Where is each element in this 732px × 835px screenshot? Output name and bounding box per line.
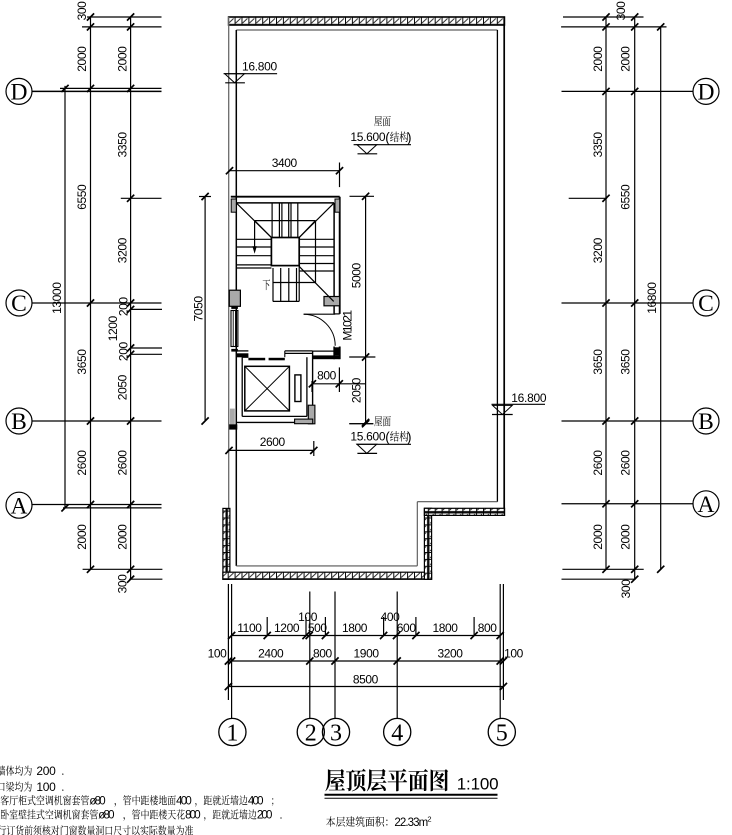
left extra row below A [63,507,162,509]
svg-text:800: 800 [478,621,498,635]
note line 5 [0,825,193,835]
axis bubble C left [6,290,32,317]
right dim chain line x=606 [605,17,607,569]
axis bubble 1 [219,718,246,746]
svg-text:500: 500 [308,621,328,635]
svg-text:3650: 3650 [75,349,89,375]
svg-text:800: 800 [313,646,333,660]
bottom dim ticks [225,632,507,690]
left ext line y=348 [131,347,162,349]
svg-text:13000: 13000 [50,282,64,314]
stair text 下 [263,279,270,290]
top parapet hatch band [228,17,504,25]
axis bubble A right [693,491,719,518]
svg-text:5: 5 [496,720,508,746]
axis B line right [562,420,694,422]
svg-text:1100: 1100 [237,621,262,635]
level 16.800 right [492,391,547,415]
axis 4 extension line [396,592,398,719]
svg-text:22.33m: 22.33m [394,817,427,829]
svg-text:6550: 6550 [75,184,89,210]
axis bubble 3 [322,718,349,746]
svg-text:800: 800 [185,810,200,822]
stair bottom edge [273,300,299,302]
left ext line y=309.4 [131,308,162,310]
svg-text:2600: 2600 [591,450,605,476]
lower roof inner corner lines [236,502,497,566]
axis D line left [32,90,162,92]
axis bubble D left [6,78,32,105]
axis bubble C right [693,290,719,317]
svg-text:ø80: ø80 [98,810,114,822]
svg-text:400: 400 [248,795,263,807]
right wall outer line [503,17,505,509]
wall below shaft [229,424,237,429]
core top wall [231,197,340,203]
svg-text:800: 800 [317,368,337,382]
axis bubble 2 [297,718,324,746]
svg-text:D: D [698,80,715,106]
svg-text:100: 100 [504,646,524,660]
svg-text:15.600: 15.600 [350,130,386,144]
dim 2600 [225,435,317,456]
lower left parapet hatch [223,508,230,579]
svg-text:4: 4 [391,720,403,746]
svg-text:2000: 2000 [75,524,89,550]
left ext line y=26.9 [82,26,162,28]
svg-text:3200: 3200 [437,646,463,660]
svg-text:B: B [11,409,27,435]
right ext line y=569.3 [562,568,643,570]
svg-text:3: 3 [330,720,342,746]
svg-text:2000: 2000 [115,46,129,72]
svg-text:C: C [698,291,714,317]
door M1021 [304,314,340,346]
axis bubble D right [693,78,719,105]
svg-text:2400: 2400 [258,646,284,660]
svg-text:2000: 2000 [619,524,633,550]
left dim chain line x=130.6 [130,17,132,579]
axis D line right [562,90,694,92]
svg-text:200: 200 [117,297,131,317]
bottom dim row2 line [228,660,503,662]
left window jamb lower [231,349,238,352]
svg-text:5000: 5000 [349,262,363,288]
level 15.600 upper [350,116,411,154]
svg-text:ø80: ø80 [89,795,105,807]
left dim chain line x=65 (13000 D-A) [64,86,66,508]
svg-text:3400: 3400 [272,156,298,170]
right ext line y=579.2 [562,578,636,580]
svg-text:400: 400 [176,795,191,807]
left wall outer line [228,17,230,509]
left ext line y=354.3 [131,353,162,355]
axis C line left [32,302,162,304]
roof inner line top [236,29,497,31]
column mid-left [229,290,240,306]
axis bubble 4 [384,718,411,746]
elevator car [245,366,290,411]
stair break lines upper [236,203,334,283]
axis 2 extension line [309,592,311,719]
svg-text:2000: 2000 [75,46,89,72]
svg-text:8500: 8500 [353,672,379,686]
gray block shaft bottom [295,419,313,424]
svg-text:100: 100 [36,780,56,794]
left dim ticks [61,13,134,582]
svg-text:3200: 3200 [115,237,129,263]
wall under door M1021 [313,347,340,359]
row1 risers [267,617,474,636]
svg-text:300: 300 [115,574,129,594]
wall seg below col mid-left [231,306,238,309]
axis A line right [562,503,694,505]
svg-text:2000: 2000 [619,46,633,72]
right flight treads [299,239,334,271]
svg-text:2: 2 [427,814,431,823]
stair well square [271,238,299,266]
svg-text:(: ( [385,130,390,145]
column top-left [231,199,236,212]
svg-text:200: 200 [257,810,272,822]
svg-text:16.800: 16.800 [511,391,547,405]
svg-text:2000: 2000 [591,524,605,550]
area text 本层建筑面积 [326,814,431,829]
svg-text:16.800: 16.800 [242,60,278,74]
svg-text:1800: 1800 [342,621,368,635]
svg-text:M1021: M1021 [340,310,354,341]
left dim texts [50,1,131,594]
elevator door sill [248,358,284,361]
dim 7050 [191,193,211,425]
svg-text:2050: 2050 [115,374,129,400]
stair break line lower [273,266,334,301]
svg-text:2600: 2600 [619,450,633,476]
svg-text:1200: 1200 [274,621,300,635]
svg-text:300: 300 [75,1,89,21]
svg-text:16800: 16800 [645,282,659,314]
dim 5000 / 2050 line [349,193,375,426]
wall face ext line x=228.4 [227,584,229,700]
svg-text:2050: 2050 [349,377,363,403]
wall face ext line x=503.4 [502,584,504,700]
gray block shaft right [308,405,315,424]
left flight treads [236,239,271,268]
svg-text:2600: 2600 [75,450,89,476]
axis bubble B left [6,408,32,435]
axis C line right [562,302,694,304]
right ext line y=26.9 [561,26,666,28]
left window [231,311,238,347]
note line 1 [0,764,63,778]
left wall inner line [235,30,237,566]
gray block shaft bottom-left [230,409,235,425]
right dim texts [591,1,659,599]
svg-text:3350: 3350 [115,132,129,158]
svg-text:2000: 2000 [591,46,605,72]
step vertical parapet hatch [424,508,431,579]
elevator shaft walls [236,351,312,423]
svg-text:7050: 7050 [191,296,205,322]
counterweight [295,375,301,402]
svg-text:100: 100 [208,646,228,660]
left ext line y=569.3 [83,568,163,570]
axis bubble B right [693,408,719,435]
svg-text:300: 300 [619,579,633,599]
svg-text:A: A [698,492,715,518]
left dim row at D [60,87,162,89]
svg-text:3350: 3350 [591,132,605,158]
right ext line y=198.3 [569,197,607,199]
lower flight treads [273,266,299,302]
title 屋顶层平面图 1:100 [325,769,499,798]
svg-text:3650: 3650 [591,349,605,375]
svg-text:3650: 3650 [619,349,633,375]
axis bubble A left [6,492,32,519]
svg-text:2600: 2600 [115,450,129,476]
svg-text:3200: 3200 [591,237,605,263]
svg-text:(: ( [385,429,390,444]
svg-text:200: 200 [117,342,131,362]
svg-text:B: B [698,409,714,435]
bottom dim texts [208,610,524,687]
left ext line y=579.2 [129,578,162,580]
svg-text:): ) [407,429,412,444]
svg-text:): ) [407,130,412,145]
left dim chain line x=90.5 [90,17,92,569]
svg-text:1:100: 1:100 [457,774,499,793]
svg-text:C: C [11,291,27,317]
right ext line y=17 [563,16,644,18]
axis bubble 5 [488,718,515,746]
note line 2 [0,780,63,794]
svg-text:15.600: 15.600 [350,430,386,444]
bottom dim row1 line [232,635,501,637]
step horizontal parapet hatch [424,508,504,515]
bottom dim row3 line (8500) [228,686,503,688]
bottom parapet hatch [223,572,432,579]
svg-text:600: 600 [397,621,417,635]
axis A line left [32,504,162,506]
svg-text:A: A [11,493,28,519]
svg-text:1800: 1800 [432,621,458,635]
svg-text:1: 1 [226,720,238,746]
svg-text:2: 2 [305,720,317,746]
left ext line y=198.3 [121,197,162,199]
svg-text:200: 200 [36,764,56,778]
note line 3 [1,795,274,807]
core right wall [334,197,340,360]
dim 800 [309,367,366,392]
left ext line y=17 [87,16,162,18]
upper flight treads [272,203,298,238]
column mid-right [324,297,340,306]
column top-right [335,199,340,212]
svg-text:D: D [11,80,28,106]
axis 5 extension line [499,584,501,718]
level 16.800 top-left [224,60,278,83]
note line 4 [1,809,282,821]
dim 3400 [226,156,343,187]
stair direction arrow [252,221,256,254]
axis 1 extension line [231,584,233,718]
right dim ticks [602,13,664,582]
svg-text:2000: 2000 [115,524,129,550]
svg-text:300: 300 [614,1,628,21]
svg-text:2600: 2600 [260,435,286,449]
level 15.600 lower [349,416,411,453]
right wall inner line [496,30,498,502]
right dim chain line x=660.7 (16800) [660,27,662,569]
svg-text:6550: 6550 [619,184,633,210]
right dim chain line x=634.7 [634,17,636,579]
svg-text:1900: 1900 [354,646,380,660]
axis B line left [32,420,162,422]
axis 3 extension line [334,592,336,719]
svg-text:1200: 1200 [106,315,120,341]
